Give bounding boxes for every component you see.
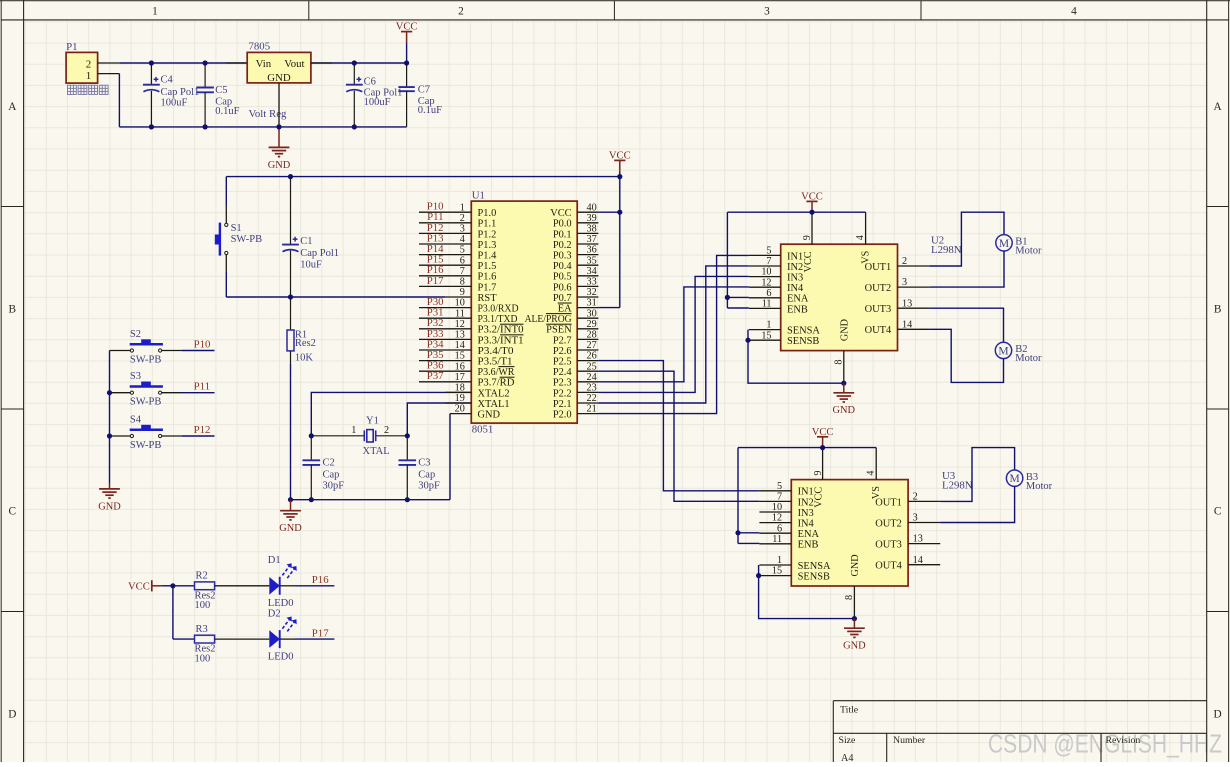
svg-text:OUT2: OUT2 bbox=[875, 518, 902, 529]
svg-text:9: 9 bbox=[802, 235, 813, 240]
U1 pin 34 stub bbox=[577, 275, 598, 277]
U1 pin 12 stub bbox=[419, 328, 471, 330]
wire U2 OUT2 to motor B1 bbox=[930, 251, 1004, 287]
capacitor C1 bbox=[290, 177, 292, 245]
wire P2.2 to U2 IN3 bbox=[598, 276, 748, 392]
svg-text:P3.4/T0: P3.4/T0 bbox=[478, 346, 514, 357]
svg-text:P1.0: P1.0 bbox=[478, 208, 497, 219]
svg-text:7805: 7805 bbox=[249, 41, 271, 53]
U1 pin 38 stub bbox=[577, 232, 598, 234]
wire crystal ground rail bbox=[291, 499, 451, 501]
wire EA bbox=[598, 307, 619, 309]
svg-text:2: 2 bbox=[458, 5, 464, 17]
svg-text:LED0: LED0 bbox=[268, 652, 294, 663]
svg-text:SW-PB: SW-PB bbox=[130, 397, 162, 408]
svg-text:P0.2: P0.2 bbox=[553, 240, 572, 251]
U1 pin 5 stub bbox=[419, 254, 471, 256]
svg-text:P0.0: P0.0 bbox=[553, 219, 572, 230]
svg-text:P0.6: P0.6 bbox=[553, 282, 572, 293]
U1 pin 13 stub bbox=[419, 338, 471, 340]
U1 pin 14 stub bbox=[419, 349, 471, 351]
svg-text:8051: 8051 bbox=[472, 424, 494, 436]
ground below keys bbox=[109, 483, 111, 489]
svg-text:GND: GND bbox=[267, 72, 291, 84]
svg-text:OUT4: OUT4 bbox=[875, 561, 902, 572]
U1 pin 15 stub bbox=[419, 360, 471, 362]
U2 pin 9 VCC bbox=[811, 212, 813, 244]
U1 pin 28 stub bbox=[577, 338, 598, 340]
svg-text:VCC: VCC bbox=[550, 208, 571, 219]
svg-text:D2: D2 bbox=[268, 608, 281, 619]
wire P1 pin1 to bottom rail bbox=[118, 74, 120, 127]
U3 pin 4 VS bbox=[875, 448, 877, 480]
U1 pin 10 stub bbox=[419, 307, 471, 309]
svg-text:IN4: IN4 bbox=[798, 519, 815, 530]
svg-text:GND: GND bbox=[833, 405, 856, 416]
resistor R1 bbox=[290, 297, 292, 330]
svg-text:A: A bbox=[8, 101, 17, 113]
svg-text:30pF: 30pF bbox=[418, 480, 440, 491]
wire U2 VCC rail bbox=[727, 211, 865, 213]
mcu U1 8051 bbox=[471, 201, 577, 423]
title block bbox=[833, 701, 1206, 762]
svg-text:P0.7: P0.7 bbox=[553, 293, 572, 304]
svg-text:P3.0/RXD: P3.0/RXD bbox=[478, 304, 519, 315]
wire top rail Vout side bbox=[311, 62, 407, 64]
svg-text:P3.5/T1: P3.5/T1 bbox=[478, 357, 513, 368]
wire P2.4 to U3 IN2 bbox=[598, 371, 759, 501]
svg-text:XTAL: XTAL bbox=[363, 446, 390, 457]
crystal Y1 XTAL bbox=[311, 435, 364, 437]
U1 pin 27 stub bbox=[577, 349, 598, 351]
U1 pin 4 stub bbox=[419, 243, 471, 245]
U1 pin 1 stub bbox=[419, 211, 471, 213]
svg-text:P37: P37 bbox=[427, 370, 444, 382]
U1 pin 24 stub bbox=[577, 381, 598, 383]
svg-text:C1: C1 bbox=[300, 236, 312, 247]
U1 pin 31 stub bbox=[577, 307, 598, 309]
svg-text:P2.7: P2.7 bbox=[553, 335, 572, 346]
svg-text:Title: Title bbox=[840, 705, 859, 716]
U1 pin 33 stub bbox=[577, 285, 598, 287]
U3 pin 9 VCC bbox=[822, 448, 824, 480]
svg-text:P1.1: P1.1 bbox=[478, 219, 497, 230]
svg-text:2: 2 bbox=[384, 425, 389, 436]
wire U2 OUT1 to motor B1 bbox=[930, 212, 1004, 266]
ground below U2 bbox=[843, 383, 845, 393]
switch S4 SW-PB bbox=[130, 429, 163, 432]
svg-text:IN1: IN1 bbox=[798, 487, 814, 498]
svg-text:C: C bbox=[1214, 506, 1222, 518]
svg-text:VCC: VCC bbox=[813, 487, 824, 508]
svg-text:VCC: VCC bbox=[128, 582, 150, 593]
svg-text:1: 1 bbox=[86, 70, 92, 82]
svg-text:SENSB: SENSB bbox=[787, 336, 819, 347]
svg-text:OUT3: OUT3 bbox=[865, 304, 892, 315]
wire U3 SENSA SENSB to ground bbox=[759, 565, 855, 619]
svg-text:P0.4: P0.4 bbox=[553, 261, 573, 272]
svg-text:D1: D1 bbox=[268, 555, 281, 566]
U1 pin 7 stub bbox=[419, 275, 471, 277]
svg-text:8: 8 bbox=[844, 595, 855, 600]
U1 pin 22 stub bbox=[577, 402, 598, 404]
svg-text:GND: GND bbox=[478, 410, 501, 421]
wire net P16 bbox=[280, 585, 295, 587]
wire S2 left bbox=[110, 350, 131, 352]
svg-text:R3: R3 bbox=[196, 624, 208, 635]
svg-text:P3.3/INT1: P3.3/INT1 bbox=[478, 335, 524, 346]
LED D1 bbox=[269, 577, 280, 595]
svg-text:SENSA: SENSA bbox=[787, 326, 820, 337]
svg-text:C2: C2 bbox=[323, 458, 335, 469]
svg-text:SW-PB: SW-PB bbox=[130, 355, 162, 366]
svg-text:P2.0: P2.0 bbox=[553, 410, 572, 421]
svg-text:C3: C3 bbox=[418, 458, 430, 469]
svg-text:P3.6/WR: P3.6/WR bbox=[478, 367, 515, 378]
U2 pin 8 GND bbox=[843, 351, 845, 384]
svg-text:M: M bbox=[999, 238, 1009, 250]
svg-text:GND: GND bbox=[98, 501, 121, 512]
svg-text:P3.7/RD: P3.7/RD bbox=[478, 378, 516, 389]
U1 pin 2 stub bbox=[419, 222, 471, 224]
driver U3 L298N bbox=[791, 480, 908, 586]
wire P2.0 to U2 IN1 bbox=[598, 255, 748, 413]
svg-text:Motor: Motor bbox=[1015, 353, 1042, 364]
svg-text:U1: U1 bbox=[472, 190, 485, 202]
svg-text:GND: GND bbox=[850, 554, 861, 576]
svg-text:P1.5: P1.5 bbox=[478, 261, 497, 272]
svg-text:RST: RST bbox=[478, 293, 498, 304]
wire S4 left bbox=[110, 435, 131, 437]
wire P2.3 to U2 IN4 bbox=[598, 287, 748, 382]
capacitor C3 bbox=[406, 436, 408, 461]
U2 pin 4 VS bbox=[865, 212, 867, 244]
svg-text:P2.5: P2.5 bbox=[553, 357, 572, 368]
ground below crystal bbox=[290, 500, 292, 511]
svg-text:GND: GND bbox=[839, 319, 850, 341]
svg-text:9: 9 bbox=[813, 471, 824, 476]
svg-text:Size: Size bbox=[839, 735, 857, 746]
motor B2 bbox=[995, 342, 1011, 358]
svg-text:1: 1 bbox=[152, 5, 158, 17]
svg-text:SW-PB: SW-PB bbox=[231, 234, 263, 245]
switch S1 SW-PB bbox=[225, 177, 227, 205]
svg-text:PSEN: PSEN bbox=[546, 325, 572, 336]
svg-text:S3: S3 bbox=[130, 371, 141, 382]
wire RST net bbox=[226, 296, 445, 298]
svg-text:IN2: IN2 bbox=[787, 262, 803, 273]
svg-text:9: 9 bbox=[460, 287, 465, 298]
svg-text:P1: P1 bbox=[66, 41, 77, 53]
svg-text:IN4: IN4 bbox=[787, 283, 804, 294]
svg-text:0.1uF: 0.1uF bbox=[215, 106, 239, 117]
driver U2 L298N bbox=[781, 244, 898, 350]
U1 pin 26 stub bbox=[577, 360, 598, 362]
wire U2 SENSA SENSB to ground bbox=[748, 330, 844, 384]
svg-text:IN2: IN2 bbox=[798, 497, 814, 508]
svg-text:P1.4: P1.4 bbox=[478, 251, 498, 262]
svg-text:100: 100 bbox=[195, 653, 211, 664]
U3 pin 8 GND bbox=[853, 586, 855, 619]
svg-text:Volt Reg: Volt Reg bbox=[249, 108, 287, 120]
wire crystal left to C2 bbox=[310, 436, 312, 461]
svg-text:Vin: Vin bbox=[256, 58, 272, 70]
wire net P12 bbox=[162, 435, 182, 437]
svg-text:B: B bbox=[1214, 304, 1222, 316]
U1 pin 29 stub bbox=[577, 328, 598, 330]
svg-text:L298N: L298N bbox=[931, 244, 962, 256]
wire P2.1 to U2 IN2 bbox=[598, 266, 748, 403]
U1 pin 6 stub bbox=[419, 264, 471, 266]
svg-text:S2: S2 bbox=[130, 329, 141, 340]
svg-text:ENB: ENB bbox=[798, 540, 819, 551]
svg-text:VS: VS bbox=[860, 250, 871, 263]
wire bottom rail bbox=[119, 126, 406, 128]
svg-text:Motor: Motor bbox=[1026, 481, 1053, 492]
svg-text:IN1: IN1 bbox=[787, 251, 803, 262]
switch S2 SW-PB bbox=[130, 343, 163, 346]
capacitor C4 bbox=[150, 63, 152, 85]
svg-text:P1.2: P1.2 bbox=[478, 229, 497, 240]
svg-text:0.1uF: 0.1uF bbox=[418, 105, 442, 116]
wire U1 GND pin20 bbox=[450, 413, 471, 415]
svg-text:Revision: Revision bbox=[1106, 735, 1141, 746]
svg-text:OUT2: OUT2 bbox=[865, 283, 892, 294]
svg-text:S1: S1 bbox=[231, 223, 242, 234]
wire U3 ENA ENB bbox=[738, 532, 759, 534]
U1 pin 30 stub bbox=[577, 317, 598, 319]
wire U3 VCC rail bbox=[738, 447, 876, 449]
svg-text:P17: P17 bbox=[312, 628, 329, 640]
svg-text:GND: GND bbox=[268, 160, 291, 171]
switch S3 SW-PB bbox=[130, 385, 163, 388]
svg-text:P2.2: P2.2 bbox=[553, 388, 572, 399]
svg-text:10uF: 10uF bbox=[300, 260, 322, 271]
wire VCC to R2 R3 bbox=[162, 585, 173, 587]
label 电源接口 bbox=[68, 85, 109, 94]
svg-text:C: C bbox=[9, 506, 17, 518]
svg-text:B: B bbox=[9, 304, 17, 316]
wire top rail Vin side bbox=[119, 62, 247, 64]
svg-text:C6: C6 bbox=[364, 77, 376, 88]
svg-text:P0.3: P0.3 bbox=[553, 251, 572, 262]
svg-text:SENSA: SENSA bbox=[798, 561, 831, 572]
wire net P10 bbox=[162, 350, 182, 352]
svg-text:4: 4 bbox=[1071, 5, 1077, 17]
wire P2.5 to U3 IN1 bbox=[598, 361, 759, 491]
capacitor C6 bbox=[353, 63, 355, 85]
svg-text:P2.1: P2.1 bbox=[553, 399, 572, 410]
svg-text:Motor: Motor bbox=[1015, 245, 1042, 256]
svg-text:4: 4 bbox=[866, 471, 877, 476]
svg-text:Cap: Cap bbox=[323, 469, 340, 480]
capacitor C2 bbox=[303, 459, 321, 461]
U1 pin 25 stub bbox=[577, 370, 598, 372]
svg-text:P3.1/TXD: P3.1/TXD bbox=[478, 314, 518, 325]
ground below U3 bbox=[853, 619, 855, 629]
junction dots RST net bbox=[288, 174, 293, 179]
pin 7805 GND bbox=[278, 83, 280, 127]
border zone dividers bbox=[1, 1, 1228, 612]
wire U3 OUT2 to motor B3 bbox=[940, 486, 1014, 522]
svg-text:A: A bbox=[1214, 101, 1223, 113]
ground below 7805 bbox=[278, 127, 280, 147]
wire S3 left bbox=[110, 392, 131, 394]
svg-text:C5: C5 bbox=[215, 85, 227, 96]
svg-text:Number: Number bbox=[893, 735, 926, 746]
svg-text:P12: P12 bbox=[194, 424, 211, 436]
svg-text:L298N: L298N bbox=[942, 480, 973, 492]
motor B1 bbox=[996, 235, 1012, 251]
svg-text:P17: P17 bbox=[427, 275, 444, 287]
pin P1.2 stub bbox=[98, 62, 120, 64]
junction dots U1 VCC net bbox=[617, 174, 622, 179]
svg-text:P0.5: P0.5 bbox=[553, 272, 572, 283]
pin P1.1 stub bbox=[98, 73, 120, 75]
wire XTAL1 bbox=[407, 403, 471, 436]
svg-text:ENA: ENA bbox=[798, 529, 820, 540]
capacitor C7 bbox=[406, 63, 408, 87]
svg-text:P16: P16 bbox=[312, 574, 329, 586]
svg-text:P2.3: P2.3 bbox=[553, 378, 572, 389]
wire U2 OUT4 to motor B2 bbox=[930, 329, 1004, 382]
svg-text:100uF: 100uF bbox=[364, 97, 391, 108]
LED D2 bbox=[269, 630, 280, 648]
svg-text:P2.6: P2.6 bbox=[553, 346, 572, 357]
wire U2 ENA ENB bbox=[727, 296, 748, 298]
svg-text:C7: C7 bbox=[418, 85, 430, 96]
svg-text:IN3: IN3 bbox=[798, 508, 814, 519]
regulator U 7805 bbox=[247, 52, 311, 83]
U1 pin 17 stub bbox=[419, 381, 471, 383]
svg-text:ENB: ENB bbox=[787, 304, 808, 315]
U1 pin 8 stub bbox=[419, 285, 471, 287]
svg-text:P11: P11 bbox=[194, 381, 210, 393]
svg-text:XTAL2: XTAL2 bbox=[478, 388, 510, 399]
resistor R3 bbox=[173, 638, 195, 640]
svg-text:Cap: Cap bbox=[418, 469, 435, 480]
svg-text:S4: S4 bbox=[130, 414, 142, 425]
svg-text:P1.6: P1.6 bbox=[478, 272, 497, 283]
U1 pin 11 stub bbox=[419, 317, 471, 319]
svg-text:GND: GND bbox=[843, 641, 866, 652]
svg-text:R2: R2 bbox=[196, 571, 208, 582]
U1 pin 23 stub bbox=[577, 391, 598, 393]
U1 pin 37 stub bbox=[577, 243, 598, 245]
svg-text:A4: A4 bbox=[841, 753, 853, 762]
svg-text:IN3: IN3 bbox=[787, 273, 803, 284]
svg-text:OUT3: OUT3 bbox=[875, 540, 902, 551]
svg-text:8: 8 bbox=[834, 360, 845, 365]
svg-text:VS: VS bbox=[871, 486, 882, 499]
resistor R2 bbox=[173, 585, 195, 587]
svg-text:Vout: Vout bbox=[284, 58, 304, 70]
svg-text:GND: GND bbox=[279, 523, 302, 534]
svg-text:100: 100 bbox=[195, 600, 211, 611]
U1 pin 32 stub bbox=[577, 296, 598, 298]
U1 pin 39 stub bbox=[577, 222, 598, 224]
wire R3 to D2 bbox=[215, 638, 270, 640]
wire VCC rail above U1 bbox=[226, 176, 620, 178]
svg-text:100uF: 100uF bbox=[161, 97, 188, 108]
svg-text:VCC: VCC bbox=[803, 251, 814, 272]
U1 pin 35 stub bbox=[577, 264, 598, 266]
U1 pin 40 stub bbox=[577, 211, 598, 213]
svg-text:P3.2/INT0: P3.2/INT0 bbox=[478, 325, 524, 336]
svg-text:M: M bbox=[998, 345, 1008, 357]
svg-text:P10: P10 bbox=[194, 339, 211, 351]
junction dots power rails bbox=[149, 60, 154, 65]
junction dots crystal bbox=[309, 433, 314, 438]
svg-text:30pF: 30pF bbox=[323, 480, 345, 491]
wire XTAL2 bbox=[311, 392, 471, 435]
U1 pin 21 stub bbox=[577, 413, 598, 415]
svg-text:D: D bbox=[8, 709, 16, 721]
svg-text:OUT4: OUT4 bbox=[865, 325, 892, 336]
U1 pin 16 stub bbox=[419, 370, 471, 372]
capacitor C5 bbox=[204, 63, 206, 88]
svg-text:XTAL1: XTAL1 bbox=[478, 399, 510, 410]
svg-text:EA: EA bbox=[558, 304, 572, 315]
svg-text:P0.1: P0.1 bbox=[553, 229, 572, 240]
svg-text:SW-PB: SW-PB bbox=[130, 440, 162, 451]
motor B3 bbox=[1006, 470, 1022, 486]
svg-text:P1.7: P1.7 bbox=[478, 282, 497, 293]
wire U2 OUT3 to motor B2 bbox=[930, 308, 1004, 342]
svg-text:C4: C4 bbox=[161, 75, 174, 86]
svg-text:P1.3: P1.3 bbox=[478, 240, 497, 251]
U1 pin 36 stub bbox=[577, 254, 598, 256]
wire net P17 bbox=[280, 638, 295, 640]
svg-text:10K: 10K bbox=[295, 353, 314, 364]
connector P1 bbox=[66, 52, 98, 83]
svg-text:ENA: ENA bbox=[787, 294, 809, 305]
svg-text:1: 1 bbox=[351, 425, 356, 436]
svg-text:3: 3 bbox=[764, 5, 770, 17]
svg-text:M: M bbox=[1009, 473, 1019, 485]
svg-text:SENSB: SENSB bbox=[798, 572, 830, 583]
svg-text:4: 4 bbox=[855, 235, 866, 240]
wire R2 to D1 bbox=[215, 585, 270, 587]
svg-text:ALE/PROG: ALE/PROG bbox=[525, 314, 572, 325]
svg-text:D: D bbox=[1214, 709, 1222, 721]
svg-text:2: 2 bbox=[86, 58, 92, 70]
U1 pin 3 stub bbox=[419, 232, 471, 234]
wire key ground bus bbox=[109, 351, 111, 484]
wire U3 OUT1 to motor B3 bbox=[940, 448, 1014, 502]
svg-text:Y1: Y1 bbox=[366, 415, 379, 426]
svg-text:Cap Pol1: Cap Pol1 bbox=[300, 248, 339, 259]
wire net P11 bbox=[162, 392, 182, 394]
wire U1 VCC pin40 bbox=[598, 211, 619, 213]
svg-text:P2.4: P2.4 bbox=[553, 367, 573, 378]
svg-text:Res2: Res2 bbox=[295, 338, 316, 349]
